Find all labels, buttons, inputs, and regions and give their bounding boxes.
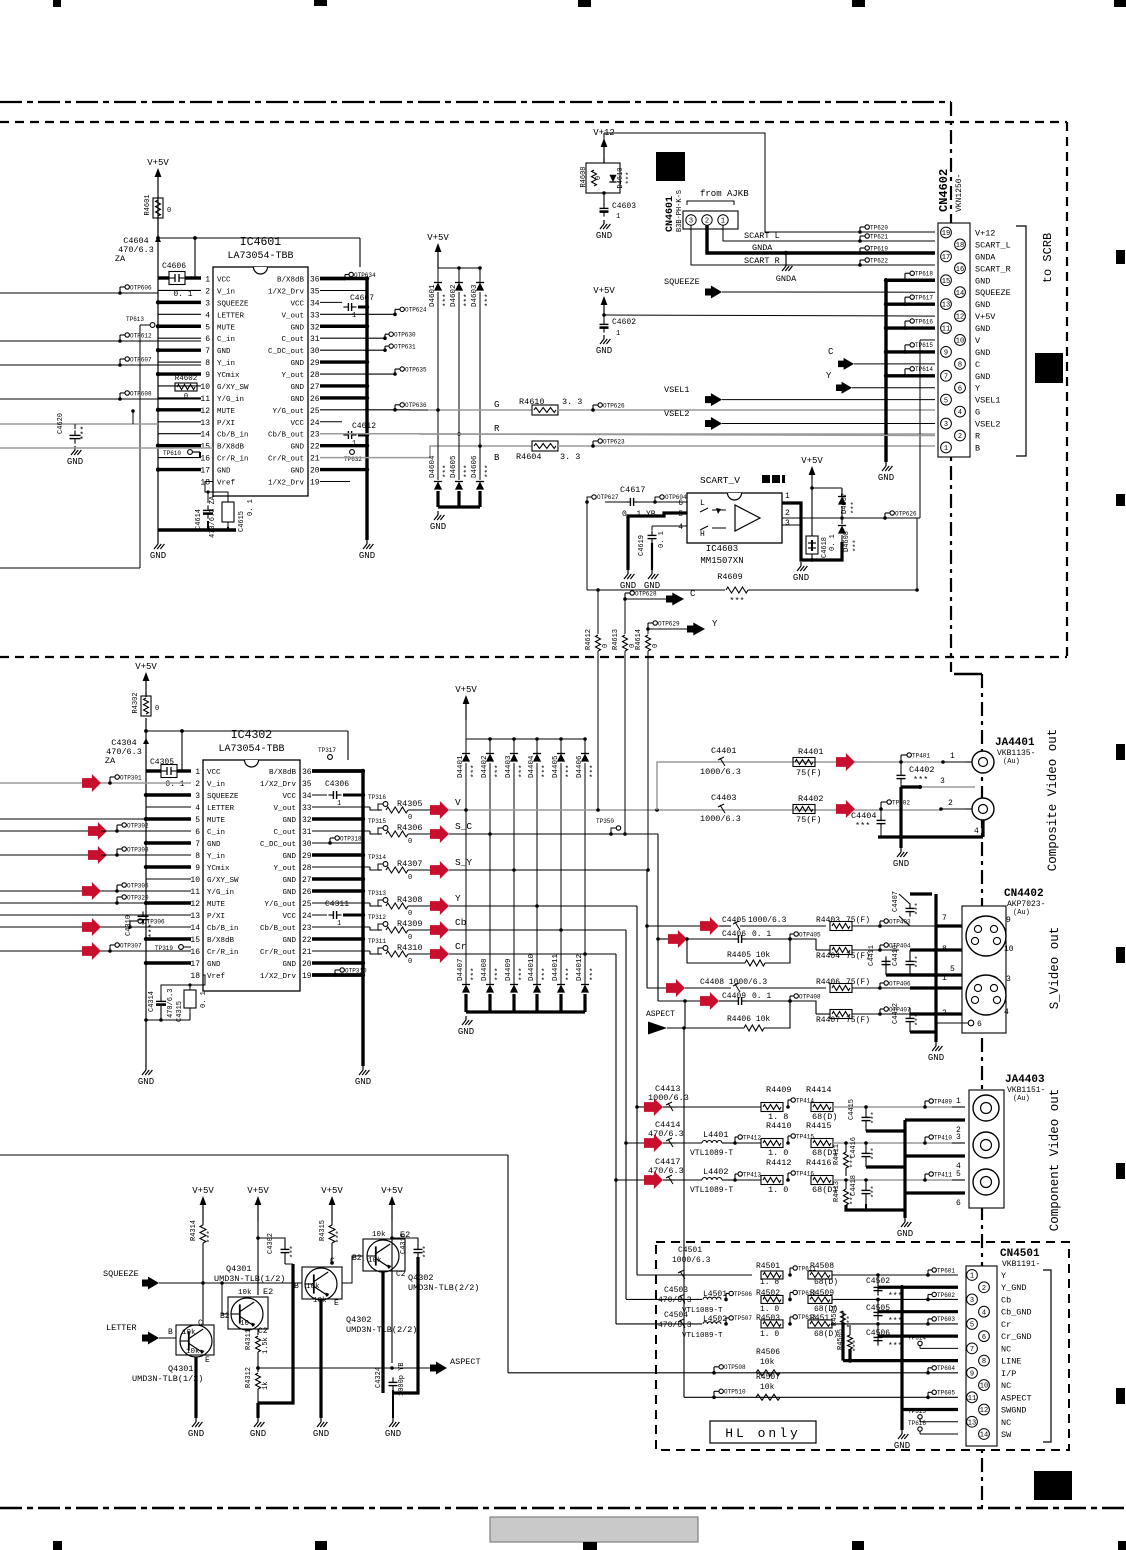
connector CN4402 din2: [966, 975, 1006, 1015]
wire V output pin33: [312, 806, 370, 808]
svg-text:1: 1: [352, 312, 356, 320]
svg-text:SQUEEZE: SQUEEZE: [217, 300, 249, 308]
test point TP319: [179, 945, 184, 950]
svg-text:OTP301: OTP301: [120, 774, 142, 781]
test point TP415: [786, 1141, 790, 1145]
svg-text:TP602: TP602: [937, 1292, 955, 1299]
svg-text:OTP604: OTP604: [665, 494, 687, 501]
svg-text:D4603: D4603: [471, 284, 479, 307]
test point OTP635: [320, 373, 395, 375]
svg-text:TP615: TP615: [915, 342, 933, 349]
CN4501 bracket: [1043, 1270, 1051, 1442]
test point OTP405: [788, 937, 792, 941]
svg-text:1/X2_Drv: 1/X2_Drv: [268, 288, 305, 296]
svg-text:OTP310: OTP310: [345, 967, 367, 974]
wire from edge OTP608: [0, 398, 201, 400]
wire V_in from edge: [0, 782, 101, 784]
ground Q4302a: [320, 1418, 322, 1422]
svg-text:CN4402: CN4402: [1004, 888, 1044, 900]
svg-text:OTP631: OTP631: [394, 343, 416, 350]
resistor R4302: [141, 696, 151, 716]
svg-text:TP415: TP415: [796, 1133, 814, 1140]
wire pin2 output: [782, 517, 920, 519]
red arrow S_Y: [430, 861, 449, 879]
svg-text:Q4302: Q4302: [408, 1273, 434, 1283]
svg-text:C4403: C4403: [711, 793, 737, 803]
capacitor C4314 C4315: [160, 996, 162, 1001]
test point TP615: [918, 1415, 922, 1419]
wire IC4601 right supply bus: [365, 279, 368, 541]
svg-text:R4410: R4410: [766, 1121, 792, 1131]
svg-text:R4508: R4508: [810, 1262, 834, 1271]
svg-text:29: 29: [310, 359, 320, 368]
svg-text:0: 0: [408, 958, 412, 966]
svg-text:13: 13: [200, 419, 210, 428]
red arrow composite 2: [836, 800, 855, 818]
test point TP603: [926, 1322, 930, 1326]
capacitor C4615: [222, 502, 234, 522]
svg-text:C4409: C4409: [722, 992, 746, 1001]
svg-text:OTP307: OTP307: [120, 942, 142, 949]
svg-text:E: E: [205, 1356, 210, 1365]
svg-text:26: 26: [302, 888, 312, 897]
wire V to JA4401 row1: [657, 762, 943, 810]
svg-text:***: ***: [915, 902, 923, 915]
svg-text:6: 6: [956, 1199, 961, 1208]
svg-text:0. 1: 0. 1: [752, 930, 771, 939]
svg-text:V+5V: V+5V: [381, 1186, 403, 1196]
svg-text:13: 13: [968, 1419, 976, 1427]
svg-text:R4608: R4608: [580, 166, 588, 187]
ground GNDA: [785, 253, 787, 262]
svg-text:OTP629: OTP629: [658, 620, 680, 627]
svg-text:C4602: C4602: [612, 318, 636, 327]
svg-text:TP614: TP614: [915, 366, 933, 373]
svg-text:6: 6: [205, 335, 210, 344]
svg-text:TP613: TP613: [126, 316, 144, 323]
ground C4619: [651, 570, 653, 574]
svg-text:TP316: TP316: [368, 794, 386, 801]
resistor R4311: [257, 1329, 259, 1335]
test point OTP510: [712, 1396, 716, 1400]
test point TP613: [140, 324, 150, 326]
HL only box: [710, 1421, 816, 1443]
op-amp triangle IC4603: [735, 505, 760, 531]
svg-text:1/X2_Drv: 1/X2_Drv: [260, 781, 297, 789]
svg-text:TP616: TP616: [915, 318, 933, 325]
svg-text:0. 1: 0. 1: [752, 992, 771, 1001]
svg-text:75(F): 75(F): [846, 916, 870, 925]
svg-text:GND: GND: [282, 961, 296, 969]
svg-text:GND: GND: [458, 1027, 474, 1037]
wire JA4401 ground net thick: [901, 787, 983, 837]
ground IC4601 left: [157, 540, 159, 544]
svg-text:10: 10: [200, 383, 210, 392]
svg-text:***: ***: [590, 764, 598, 778]
test point TP610: [188, 450, 193, 455]
svg-text:R4504: R4504: [831, 1305, 839, 1326]
svg-text:***: ***: [471, 764, 479, 778]
svg-text:TP317: TP317: [318, 747, 336, 754]
wire CN4602 gnd bus: [884, 280, 887, 462]
svg-text:75(F): 75(F): [796, 768, 822, 778]
svg-text:31: 31: [310, 335, 320, 344]
svg-text:0: 0: [652, 644, 660, 648]
svg-text:VCC: VCC: [282, 793, 296, 801]
svg-text:VCC: VCC: [282, 913, 296, 921]
wire feedback R4609 row: [586, 502, 588, 590]
svg-text:R4306: R4306: [397, 823, 423, 833]
wire IC4601 left supply bus: [157, 196, 159, 540]
svg-text:15: 15: [190, 936, 200, 945]
svg-text:R4405 10k: R4405 10k: [727, 951, 770, 960]
ground CN4501: [900, 1410, 903, 1430]
svg-text:VSEL2: VSEL2: [975, 420, 1001, 430]
wire pin3: [782, 524, 801, 526]
wire S_Y row: [449, 869, 647, 871]
red arrow Cr/R_in: [82, 942, 101, 960]
red arrow svideo1: [700, 917, 719, 935]
svg-text:1: 1: [944, 445, 948, 453]
svg-text:GND: GND: [359, 551, 375, 561]
fiducial square bottom right: [1034, 1471, 1072, 1500]
test point OTP630: [320, 337, 385, 339]
svg-text:GND: GND: [250, 1429, 266, 1439]
svg-text:TP414: TP414: [796, 1097, 814, 1104]
svg-text:12: 12: [200, 407, 210, 416]
svg-text:B/X8dB: B/X8dB: [207, 937, 235, 945]
svg-text:Cb: Cb: [455, 917, 467, 928]
svg-text:LA73054-TBB: LA73054-TBB: [218, 744, 284, 755]
svg-text:IC4603: IC4603: [706, 544, 738, 554]
svg-text:R4307: R4307: [397, 859, 423, 869]
svg-text:G/XY_SW: G/XY_SW: [207, 877, 239, 885]
svg-text:15: 15: [200, 443, 210, 452]
svg-text:I/P: I/P: [1001, 1369, 1016, 1379]
svg-text:(Au): (Au): [1013, 909, 1030, 917]
svg-text:GND: GND: [282, 853, 296, 861]
resistor R4604: [532, 441, 558, 451]
svg-text:V+5V: V+5V: [192, 1186, 214, 1196]
svg-text:R4305: R4305: [397, 799, 423, 809]
svg-text:VSEL1: VSEL1: [664, 385, 690, 395]
wire Cb vertical feed: [625, 930, 627, 1299]
svg-text:Y: Y: [826, 371, 832, 381]
fiducial square right mid: [1035, 353, 1063, 383]
svg-text:TP315: TP315: [368, 818, 386, 825]
wire clamp column 2: [489, 763, 491, 984]
svg-text:JA4401: JA4401: [995, 737, 1035, 749]
svg-text:from AJKB: from AJKB: [700, 189, 749, 199]
wire pin5 to gnd thick: [628, 513, 687, 570]
svg-text:GND: GND: [207, 961, 221, 969]
svg-text:33: 33: [302, 804, 312, 813]
svg-text:R4315: R4315: [319, 1220, 327, 1241]
svg-text:3: 3: [944, 421, 948, 429]
svg-text:27: 27: [302, 876, 312, 885]
svg-text:4: 4: [205, 311, 210, 320]
svg-text:9: 9: [970, 1370, 974, 1378]
svg-text:7: 7: [970, 1346, 974, 1354]
resistor R4608 / diode D4610 pack: [586, 163, 620, 193]
svg-text:***: ***: [542, 764, 550, 778]
svg-text:D4404: D4404: [528, 755, 536, 778]
svg-text:R4312: R4312: [245, 1367, 253, 1388]
svg-text:D4402: D4402: [481, 755, 489, 778]
svg-text:1/X2_Drv: 1/X2_Drv: [268, 479, 305, 487]
svg-text:Y_GND: Y_GND: [1001, 1283, 1027, 1293]
wire pin5 mid: [886, 973, 936, 976]
wire P/XI row: [0, 914, 191, 916]
op-amp IC4302 package: [203, 760, 300, 991]
svg-text:Q4301: Q4301: [226, 1264, 252, 1274]
svg-text:1: 1: [970, 1273, 974, 1281]
svg-text:23: 23: [302, 924, 312, 933]
wire IC4302 left supply bus: [145, 718, 147, 1066]
svg-text:GND: GND: [282, 817, 296, 825]
wire Cr vertical feed: [615, 954, 617, 1324]
svg-text:***: ***: [519, 764, 527, 778]
wire CN4501 Cr row: [616, 1323, 702, 1325]
wire vertical R4613 to S_C row: [624, 651, 626, 834]
svg-text:R4411: R4411: [833, 1144, 841, 1165]
test point OTP623 B line: [591, 444, 595, 448]
svg-text:C_out: C_out: [273, 829, 296, 837]
red arrow S_C: [430, 825, 449, 843]
svg-text:12: 12: [956, 314, 964, 322]
svg-text:OTP320: OTP320: [127, 894, 149, 901]
svg-text:***: ***: [566, 764, 574, 778]
wire Cb row: [449, 929, 626, 931]
svg-text:1. 0: 1. 0: [768, 1148, 788, 1158]
svg-text:GND: GND: [975, 276, 990, 286]
svg-text:2: 2: [948, 799, 953, 808]
svg-text:8: 8: [195, 852, 200, 861]
svg-text:D4409: D4409: [505, 958, 513, 981]
svg-text:E: E: [334, 1299, 339, 1308]
svg-text:SCART_L: SCART_L: [975, 240, 1011, 250]
svg-text:C4314: C4314: [148, 991, 156, 1012]
svg-text:OTP302: OTP302: [127, 822, 149, 829]
svg-text:V_in: V_in: [217, 288, 235, 296]
svg-text:Cb_GND: Cb_GND: [1001, 1308, 1032, 1318]
svg-text:SCART L: SCART L: [744, 231, 780, 241]
svg-text:C4615: C4615: [238, 511, 246, 532]
wire svideo row4 (C4409): [658, 1000, 700, 1002]
svg-text:20: 20: [310, 467, 320, 476]
svg-text:22: 22: [310, 443, 320, 452]
wire comp gnd bus: [846, 1205, 905, 1210]
svg-text:C4406: C4406: [722, 930, 746, 939]
connector CN4402 body: [962, 906, 1006, 1033]
fiducial bottom marks: [53, 1541, 62, 1550]
ground CN4602 bus: [885, 462, 887, 466]
connector CN4501 body: [966, 1266, 997, 1446]
dash-dot vertical through connectors: [981, 674, 983, 1507]
test point TP401: [899, 760, 903, 764]
red arrow composite 1: [836, 753, 855, 771]
svg-text:D4610: D4610: [617, 167, 625, 188]
test point TP410: [923, 1141, 927, 1145]
svg-text:R4309: R4309: [397, 919, 423, 929]
test point OTP318: [312, 842, 330, 844]
svg-text:C4603: C4603: [612, 202, 636, 211]
wire V+12 to CN4602 pin19: [603, 133, 605, 146]
svg-text:4: 4: [678, 523, 683, 532]
capacitor C4412: [909, 1008, 911, 1014]
svg-text:C4412: C4412: [892, 1003, 900, 1024]
svg-text:TP311: TP311: [368, 938, 386, 945]
wire clamp diodes to RGB rows: [437, 292, 439, 410]
svg-text:G: G: [975, 408, 980, 418]
svg-text:GND: GND: [290, 324, 304, 332]
svg-text:12: 12: [190, 900, 200, 909]
svg-text:TP610: TP610: [163, 450, 181, 457]
wire V row2 to JA4401: [449, 809, 941, 811]
svg-text:SCART_R: SCART_R: [975, 264, 1011, 274]
svg-text:GND: GND: [430, 522, 446, 532]
svg-text:R4609: R4609: [717, 572, 743, 582]
svg-text:***: ***: [423, 1245, 431, 1258]
svg-text:OTP628: OTP628: [635, 590, 657, 597]
ground svideo bus: [935, 1042, 937, 1046]
svg-text:VTL1089-T: VTL1089-T: [682, 1332, 723, 1340]
transistor Q4302 second half: [363, 1239, 405, 1271]
red arrow svideo4: [700, 992, 719, 1010]
svg-text:H: H: [700, 530, 705, 539]
wire Cb/B_out pin23 to R line: [320, 433, 935, 435]
svg-text:Cb: Cb: [1001, 1295, 1011, 1305]
capacitor C4620: [0, 423, 158, 425]
svg-text:NC: NC: [1001, 1418, 1011, 1428]
svg-text:14: 14: [956, 290, 964, 298]
svg-text:Composite Video out: Composite Video out: [1046, 729, 1060, 872]
svg-text:1000p YB: 1000p YB: [398, 1362, 406, 1396]
svg-text:0. 1: 0. 1: [173, 290, 192, 299]
test point OTP407: [878, 1012, 882, 1016]
svg-text:Vref: Vref: [217, 479, 236, 487]
svg-text:TP615: TP615: [908, 1408, 926, 1415]
svg-text:1. 0: 1. 0: [768, 1185, 788, 1195]
ground IC4601 right: [366, 540, 368, 544]
capacitor C4310: [142, 911, 144, 916]
svg-text:C2: C2: [258, 1327, 268, 1336]
wire Q4301b gnd: [257, 1389, 259, 1403]
resistor R4411 vert: [844, 1152, 849, 1168]
svg-text:TP401: TP401: [912, 752, 930, 759]
svg-text:VCC: VCC: [290, 420, 304, 428]
dashed CN4501 block border: [656, 1242, 1069, 1450]
resistor R4315: [329, 1225, 335, 1243]
CN4501 pins: [967, 1270, 978, 1281]
svg-text:GND: GND: [975, 324, 990, 334]
red arrow V: [430, 801, 449, 819]
resistor R4613: [624, 599, 626, 634]
wire V+5V to D4607: [812, 487, 842, 489]
test point OTP631: [320, 349, 385, 351]
svg-text:470/6.3: 470/6.3: [648, 1166, 684, 1176]
ground D44xx: [465, 1016, 467, 1020]
svg-text:G/XY_SW: G/XY_SW: [217, 384, 249, 392]
capacitor C4418: [865, 1180, 867, 1186]
IC4302 right pin stubs: [312, 973, 363, 976]
svg-text:Vref: Vref: [207, 973, 226, 981]
svg-text:R4308: R4308: [397, 895, 423, 905]
svg-text:D44012: D44012: [576, 954, 584, 981]
test point TP316: [378, 804, 383, 810]
wire S_Y output pin28: [312, 866, 370, 868]
wire GND pin9: [886, 350, 935, 353]
svg-text:VCC: VCC: [217, 277, 231, 285]
red arrow Y: [430, 897, 449, 915]
svg-text:18: 18: [956, 242, 964, 250]
capacitor C4619: [651, 526, 653, 530]
svg-text:***: ***: [207, 1230, 215, 1243]
svg-text:C4618: C4618: [821, 537, 829, 558]
dash-dot jog: [954, 673, 982, 676]
svg-text:OTP626: OTP626: [895, 510, 917, 517]
svg-text:SCART_V: SCART_V: [700, 475, 740, 486]
svg-text:0. 1: 0. 1: [247, 499, 255, 516]
wire svideo row1 (C4405): [647, 925, 700, 927]
svg-text:GND: GND: [793, 573, 809, 583]
test point OTP319 pin19: [312, 973, 363, 976]
svg-text:R4509: R4509: [810, 1289, 834, 1298]
svg-text:VCC: VCC: [290, 300, 304, 308]
svg-text:21: 21: [302, 948, 312, 957]
resistor R4612: [596, 588, 600, 592]
svg-text:TP622: TP622: [870, 257, 888, 264]
wire jack grounds: [981, 820, 984, 837]
svg-text:5: 5: [956, 1170, 961, 1179]
red arrow svideo3: [666, 979, 685, 997]
CN4602 pins: [941, 227, 952, 238]
svg-text:1. 0: 1. 0: [760, 1330, 779, 1339]
svg-text:OTP406: OTP406: [889, 980, 911, 987]
wire to jack pin 3: [952, 1142, 965, 1144]
svg-text:TP601: TP601: [937, 1267, 955, 1274]
svg-text:R4406: R4406: [816, 978, 840, 987]
wire V row: [449, 809, 941, 811]
connector CN4402 din1: [966, 916, 1006, 956]
svg-text:4: 4: [982, 1309, 986, 1317]
svg-text:R4614: R4614: [635, 629, 643, 650]
svg-text:GND: GND: [282, 877, 296, 885]
svg-text:D4601: D4601: [429, 284, 437, 307]
arrow C: [666, 593, 684, 606]
svg-text:***: ***: [853, 1339, 861, 1352]
pin CN4601-1: [718, 215, 728, 225]
svg-text:GND: GND: [355, 1077, 371, 1087]
wire B to pin1: [700, 446, 935, 447]
svg-text:Y_in: Y_in: [217, 360, 235, 368]
svg-text:V+5V: V+5V: [593, 286, 615, 296]
svg-text:VKB1151-: VKB1151-: [1007, 1086, 1045, 1095]
svg-text:36: 36: [302, 768, 312, 777]
svg-text:11: 11: [968, 1395, 976, 1403]
svg-text:5: 5: [205, 323, 210, 332]
svg-text:OTP635: OTP635: [405, 366, 427, 373]
svg-text:TP507: TP507: [734, 1315, 752, 1322]
svg-text:0: 0: [167, 207, 171, 215]
wire C4316 down thick: [393, 1257, 418, 1393]
svg-text:TP620: TP620: [870, 224, 888, 231]
svg-text:OTP636: OTP636: [405, 402, 427, 409]
svg-text:YCmix: YCmix: [207, 865, 230, 873]
svg-text:***: ***: [542, 967, 550, 981]
svg-text:D44011: D44011: [552, 953, 560, 981]
svg-text:SQUEEZE: SQUEEZE: [664, 277, 700, 287]
